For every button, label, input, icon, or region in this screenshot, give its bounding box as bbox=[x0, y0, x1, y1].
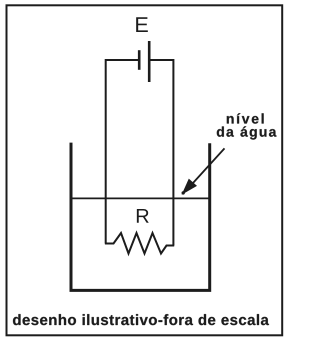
battery E short plate (negative terminal) bbox=[138, 50, 141, 70]
wire right vertical down to resistor bbox=[172, 59, 174, 246]
label "nivel" (water level callout line 1) bbox=[227, 113, 264, 123]
water level line bbox=[71, 197, 210, 199]
battery E value label bbox=[136, 17, 148, 32]
resistor R zigzag bbox=[105, 233, 174, 254]
wire from battery positive plate to right bbox=[150, 59, 173, 61]
caption "desenho ilustrativo-fora de escala" bbox=[13, 314, 269, 325]
arrow line from label to water level bbox=[193, 148, 225, 183]
battery E long plate (positive terminal) bbox=[148, 41, 151, 82]
resistor R label bbox=[137, 209, 149, 223]
beaker water container bbox=[71, 143, 210, 291]
arrowhead blunt tip bbox=[182, 191, 185, 194]
label "da agua" (water level callout line 2) bbox=[217, 126, 277, 139]
wire left vertical down to resistor bbox=[105, 59, 107, 244]
wire from battery negative plate to left bbox=[106, 59, 138, 61]
arrowhead at water level bbox=[182, 179, 197, 195]
